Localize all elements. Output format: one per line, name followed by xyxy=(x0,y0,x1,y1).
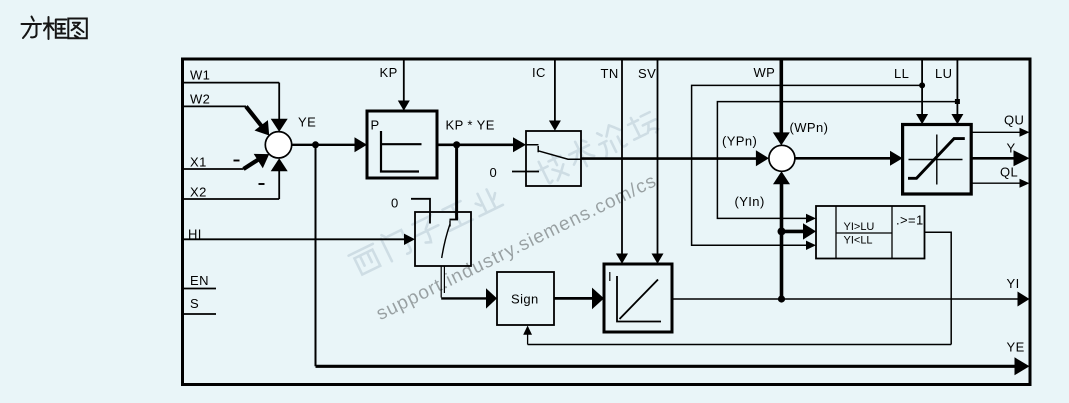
svg-text:KP: KP xyxy=(380,65,398,80)
node YIn comparator branch dot xyxy=(778,227,786,235)
wire P output to node xyxy=(437,144,514,147)
arrow KP into P top xyxy=(398,101,410,111)
wire switch output to summer 2 xyxy=(581,157,757,160)
arrow IC into switch top xyxy=(549,121,561,131)
char fang xyxy=(22,17,42,39)
wire W1 vertical into summer xyxy=(278,83,280,120)
svg-text:0: 0 xyxy=(490,165,498,180)
arrow LL into limiter top xyxy=(916,114,928,124)
wire LU branch to comparator xyxy=(717,102,957,219)
svg-text:QL: QL xyxy=(1000,165,1018,180)
wire Y output thick xyxy=(971,157,1015,160)
arrow into Sign xyxy=(486,288,497,308)
wire YIn thick vertical xyxy=(780,184,784,299)
wire LU vertical xyxy=(956,61,958,116)
svg-text:IC: IC xyxy=(532,65,546,80)
arrow W1 into summing junction top xyxy=(271,119,288,132)
wire Sign output xyxy=(554,297,593,300)
arrow YPn into summer 2 left xyxy=(756,150,769,166)
wire LL vertical xyxy=(921,61,923,116)
wire W2 diagonal thick xyxy=(246,106,262,126)
wire QU output xyxy=(971,131,1020,133)
wire EN stub xyxy=(184,288,216,290)
wire summer 2 output xyxy=(795,157,891,160)
svg-text:YI<LL: YI<LL xyxy=(844,235,873,247)
svg-text:X1: X1 xyxy=(190,155,207,170)
switch blade lower xyxy=(442,221,450,259)
arrow YE at border xyxy=(1015,357,1030,375)
svg-text:LU: LU xyxy=(935,66,952,81)
svg-text:SV: SV xyxy=(638,66,656,81)
wm char ye xyxy=(470,186,503,216)
svg-text:Sign: Sign xyxy=(511,292,539,307)
block IC init switch xyxy=(526,131,581,186)
arrow feedback into Sign bottom xyxy=(523,326,532,335)
arrow LU into limiter top xyxy=(951,114,963,124)
minus sign X1 xyxy=(234,160,240,162)
svg-text:YI: YI xyxy=(1007,276,1020,291)
wire double vertical from lower switch xyxy=(441,266,444,298)
arrow TN into I block xyxy=(616,254,628,264)
arrow YIn into summer 2 bottom xyxy=(773,171,790,184)
arrow QL at border xyxy=(1020,179,1030,188)
svg-text:EN: EN xyxy=(190,273,209,288)
arrow W2 into summing junction xyxy=(255,120,270,135)
svg-text:(WPn): (WPn) xyxy=(790,120,829,135)
svg-text:S: S xyxy=(190,296,199,311)
wire thick down from KP*YE node into lower switch xyxy=(455,145,458,220)
wire YE branch vertical down xyxy=(315,145,317,366)
svg-text:WP: WP xyxy=(754,65,776,80)
arrow HI into switch xyxy=(404,234,415,245)
block I integrator xyxy=(604,264,672,332)
svg-text:W1: W1 xyxy=(190,68,210,83)
char kuang xyxy=(44,17,67,39)
limiter axes xyxy=(909,135,963,185)
arrow into P block xyxy=(355,137,368,152)
svg-text:LL: LL xyxy=(894,66,909,81)
wire X2 horizontal xyxy=(184,198,279,200)
wm char xi xyxy=(349,244,383,277)
wire YI output of I block xyxy=(672,298,1018,300)
node YE junction dot xyxy=(312,141,319,148)
node KP*YE junction dot xyxy=(453,141,460,148)
wire WP thick vertical xyxy=(779,61,783,134)
switch blade IC xyxy=(526,145,581,159)
arrow QU at border xyxy=(1020,128,1030,137)
contact tick in lower switch xyxy=(450,219,459,221)
arrow LL branch into comparator xyxy=(806,241,816,250)
wm char shu xyxy=(565,137,597,171)
wire QL output xyxy=(971,182,1020,184)
svg-text:Y: Y xyxy=(1007,141,1016,156)
svg-text:X2: X2 xyxy=(190,185,207,200)
char tu xyxy=(68,19,87,39)
wire 0 input of IC switch xyxy=(512,171,539,173)
svg-text:YI>LU: YI>LU xyxy=(844,221,875,233)
wire YE output of summer xyxy=(292,144,355,146)
comparator divider left xyxy=(835,206,837,259)
svg-text:P: P xyxy=(371,118,380,133)
wire feedback horizontal xyxy=(528,344,952,346)
svg-text:I: I xyxy=(608,269,612,284)
P step-response glyph xyxy=(381,131,422,172)
wm char ji xyxy=(534,151,570,186)
summing junction 1 xyxy=(265,132,291,158)
wire feedback from OR gate xyxy=(925,232,952,344)
TITLE 方框图 drawn as strokes xyxy=(22,17,87,40)
node YI junction dot xyxy=(778,295,785,302)
wire X1 diagonal thick xyxy=(244,159,260,169)
wm char lun xyxy=(594,122,628,157)
arrow Y at border xyxy=(1014,150,1030,166)
wire S stub xyxy=(184,313,216,315)
block P proportional xyxy=(367,111,437,178)
svg-text:HI: HI xyxy=(188,227,202,242)
node LU branch square xyxy=(955,99,960,104)
arrow into IC switch xyxy=(513,137,526,152)
arrow thick into comparator xyxy=(803,223,816,239)
arrow LU branch into comparator xyxy=(806,214,816,223)
minus sign X2 xyxy=(259,183,265,185)
wm char tan xyxy=(625,109,661,143)
svg-text:0: 0 xyxy=(391,196,399,211)
svg-text:TN: TN xyxy=(601,66,619,81)
wire IC vertical xyxy=(554,61,556,122)
wire HI xyxy=(184,238,405,240)
wire W1 horizontal xyxy=(184,82,279,84)
arrow X1 into summing junction xyxy=(254,154,270,168)
wire YE bottom thick xyxy=(316,365,1016,368)
arrow WP into summer 2 top xyxy=(773,132,790,145)
arrow into I block xyxy=(592,288,604,310)
wire thick into comparator xyxy=(782,230,804,234)
summing junction 2 xyxy=(769,145,795,171)
comparator divider right xyxy=(891,206,893,259)
arrow X2 into summing junction bottom xyxy=(271,158,288,171)
block Sign xyxy=(497,272,554,325)
wire LL branch to comparator xyxy=(692,85,923,245)
block limiter xyxy=(903,125,972,195)
outer frame box xyxy=(183,59,1031,385)
arrow SV into I block xyxy=(652,254,664,264)
svg-text:(YIn): (YIn) xyxy=(735,194,765,209)
WATERMARK (faint diagonal forum stamp) xyxy=(347,105,684,325)
wire SV vertical xyxy=(657,61,659,255)
node LL branch dot xyxy=(919,82,925,88)
block lower switch (HI) xyxy=(415,212,471,266)
wire 0 input bracket of lower switch xyxy=(411,199,430,224)
wire into Sign xyxy=(441,297,487,299)
svg-text:KP * YE: KP * YE xyxy=(446,118,495,133)
svg-text:W2: W2 xyxy=(190,92,210,107)
block comparator xyxy=(816,206,925,259)
wire feedback vertical to Sign xyxy=(527,334,529,345)
wire TN vertical xyxy=(621,61,623,255)
wire X1 horizontal xyxy=(184,168,244,170)
svg-text:(YPn): (YPn) xyxy=(722,134,757,149)
I ramp glyph xyxy=(617,276,661,322)
limiter saturation curve xyxy=(908,139,965,179)
wm char gong xyxy=(440,200,473,231)
svg-text:YE: YE xyxy=(1007,340,1025,355)
svg-text:YE: YE xyxy=(298,115,316,130)
arrow into limiter xyxy=(890,151,903,166)
wm char zi xyxy=(410,214,444,247)
svg-text:.>=1: .>=1 xyxy=(896,213,924,228)
wm char men xyxy=(380,226,412,261)
wire W2 horizontal xyxy=(184,105,246,107)
wire KP vertical xyxy=(403,61,405,102)
svg-text:QU: QU xyxy=(1004,113,1024,128)
comparator middle line xyxy=(836,232,892,234)
arrow YI at border xyxy=(1018,292,1030,307)
wire X2 vertical into summer xyxy=(278,170,280,199)
